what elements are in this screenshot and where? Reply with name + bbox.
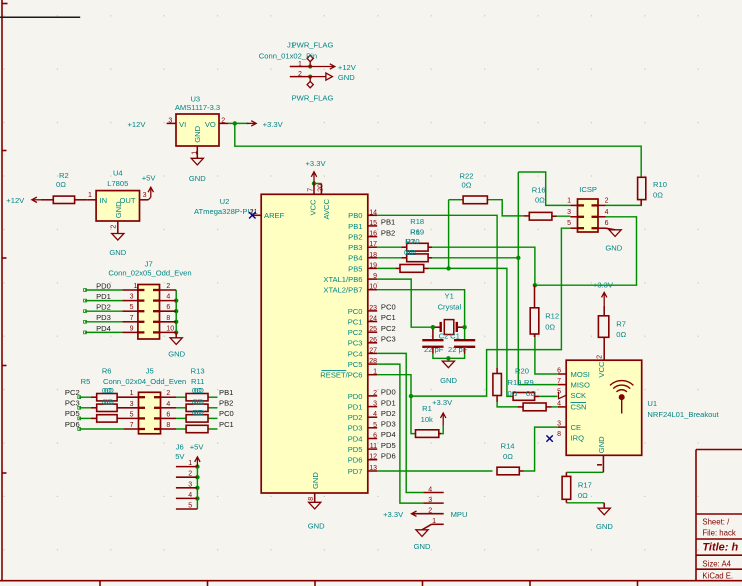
svg-text:VCC: VCC [597,361,606,378]
svg-text:L7805: L7805 [107,179,128,188]
svg-text:1: 1 [88,192,92,199]
svg-text:NRF24L01_Breakout: NRF24L01_Breakout [647,410,719,419]
svg-text:4: 4 [166,294,170,301]
svg-text:PD5: PD5 [348,445,363,454]
svg-text:1: 1 [567,197,571,204]
svg-text:1: 1 [373,369,377,376]
svg-text:14: 14 [369,209,377,216]
svg-text:GND: GND [605,243,622,252]
svg-text:9: 9 [373,273,377,280]
svg-text:0Ω: 0Ω [535,196,545,205]
svg-text:PC2: PC2 [381,324,396,333]
svg-text:24: 24 [369,316,377,323]
svg-text:13: 13 [369,465,377,472]
svg-text:PD4: PD4 [381,430,396,439]
svg-text:6: 6 [166,304,170,311]
svg-text:3: 3 [428,497,432,504]
svg-text:21: 21 [250,209,258,216]
svg-text:10: 10 [369,284,377,291]
svg-text:PD7: PD7 [348,467,363,476]
svg-text:+3.3V: +3.3V [305,159,326,168]
svg-text:7: 7 [130,315,134,322]
svg-text:28: 28 [369,358,377,365]
svg-text:+3.3V: +3.3V [432,398,453,407]
svg-text:2: 2 [221,118,225,125]
svg-text:File: hack: File: hack [702,528,735,537]
svg-text:3: 3 [143,192,147,199]
svg-text:GND: GND [414,542,431,551]
svg-text:PD2: PD2 [381,409,396,418]
svg-text:U2: U2 [220,197,230,206]
svg-text:8: 8 [166,422,170,429]
svg-text:27: 27 [369,347,377,354]
svg-text:C1: C1 [450,332,460,341]
svg-text:GND: GND [440,376,457,385]
svg-text:22 pF: 22 pF [424,345,444,354]
svg-text:AMS1117-3.3: AMS1117-3.3 [175,103,220,112]
svg-text:J6: J6 [176,442,184,451]
svg-text:R1: R1 [422,404,432,413]
svg-text:R13: R13 [191,366,205,375]
svg-text:2: 2 [166,390,170,397]
svg-text:2: 2 [597,355,604,359]
svg-text:KiCad E.: KiCad E. [702,571,733,580]
svg-text:+3.3V: +3.3V [263,120,284,129]
svg-text:2: 2 [373,390,377,397]
svg-text:8: 8 [308,497,315,501]
svg-text:PD0: PD0 [96,281,111,290]
svg-text:Conn_02x05_Odd_Even: Conn_02x05_Odd_Even [108,269,191,278]
svg-text:PB2: PB2 [348,233,362,242]
svg-text:PC5: PC5 [348,360,363,369]
svg-text:PC3: PC3 [381,335,396,344]
svg-text:PD4: PD4 [348,434,363,443]
svg-text:PC0: PC0 [381,303,396,312]
svg-text:PC0: PC0 [348,307,363,316]
svg-text:26: 26 [369,337,377,344]
svg-text:2: 2 [298,71,302,78]
svg-text:VI: VI [179,120,186,129]
svg-text:4: 4 [428,486,432,493]
svg-text:C2: C2 [439,332,449,341]
svg-text:PB2: PB2 [219,399,233,408]
svg-text:PB2: PB2 [381,228,395,237]
svg-text:1: 1 [130,390,134,397]
svg-text:10k: 10k [421,415,433,424]
svg-text:U1: U1 [647,399,657,408]
svg-text:R10: R10 [653,180,667,189]
svg-text:PC1: PC1 [348,317,363,326]
svg-text:15: 15 [369,220,377,227]
svg-text:R22: R22 [460,171,474,180]
svg-text:7: 7 [557,378,561,385]
svg-text:8: 8 [557,431,561,438]
svg-text:PD5: PD5 [65,409,80,418]
svg-text:0Ω: 0Ω [653,190,663,199]
svg-text:GND: GND [311,472,320,489]
svg-text:Sheet: /: Sheet: / [702,518,730,527]
svg-text:+5V: +5V [190,442,205,451]
svg-text:+3.3V: +3.3V [383,510,404,519]
svg-text:PD6: PD6 [348,456,363,465]
svg-text:4: 4 [605,209,609,216]
svg-text:GND: GND [193,125,202,142]
svg-text:R16: R16 [532,186,546,195]
svg-text:6: 6 [605,220,609,227]
svg-text:16: 16 [369,231,377,238]
svg-text:PD6: PD6 [381,451,396,460]
svg-text:AREF: AREF [264,211,285,220]
svg-text:J5: J5 [146,366,154,375]
svg-text:ICSP: ICSP [579,185,597,194]
svg-text:PC2: PC2 [348,328,363,337]
svg-text:PB1: PB1 [381,218,395,227]
svg-text:PC0: PC0 [219,409,234,418]
svg-text:4: 4 [188,492,192,499]
svg-text:PB4: PB4 [348,254,362,263]
svg-text:0Ω: 0Ω [194,408,204,417]
svg-text:R6: R6 [410,227,420,236]
svg-text:19: 19 [369,262,377,269]
svg-text:R5: R5 [81,377,91,386]
svg-text:12: 12 [369,454,377,461]
svg-text:6: 6 [373,433,377,440]
svg-text:2: 2 [188,471,192,478]
svg-text:GND: GND [168,350,185,359]
svg-text:11: 11 [370,443,377,450]
svg-text:6: 6 [557,368,561,375]
svg-text:5: 5 [567,220,571,227]
svg-text:R9: R9 [524,378,534,387]
svg-text:PD3: PD3 [348,424,363,433]
svg-text:7: 7 [130,422,134,429]
svg-text:0Ω: 0Ω [616,330,626,339]
svg-text:PD2: PD2 [96,303,111,312]
svg-text:0Ω: 0Ω [462,181,472,190]
svg-text:4: 4 [166,401,170,408]
svg-text:CSN: CSN [571,403,587,412]
svg-text:5: 5 [130,411,134,418]
svg-text:R14: R14 [501,442,515,451]
svg-text:PD1: PD1 [381,398,396,407]
svg-text:MPU: MPU [451,510,468,519]
svg-text:GND: GND [109,248,126,257]
svg-text:J7: J7 [145,260,153,269]
svg-text:5: 5 [188,503,192,510]
svg-text:IRQ: IRQ [571,434,585,443]
svg-text:AVCC: AVCC [322,198,331,219]
svg-text:R19: R19 [508,378,522,387]
svg-text:PC1: PC1 [381,313,396,322]
svg-text:R7: R7 [405,237,415,246]
svg-text:U3: U3 [190,94,200,103]
svg-text:+12V: +12V [128,120,147,129]
svg-text:VCC: VCC [308,199,317,216]
svg-text:R17: R17 [578,480,592,489]
svg-text:GND: GND [338,73,355,82]
svg-text:0Ω: 0Ω [526,389,536,398]
svg-text:6: 6 [166,411,170,418]
svg-text:0Ω: 0Ω [104,386,114,395]
svg-text:PD1: PD1 [348,403,363,412]
svg-text:2: 2 [428,508,432,515]
svg-text:PB1: PB1 [219,388,233,397]
svg-text:PD5: PD5 [381,441,396,450]
svg-text:0Ω: 0Ω [578,491,588,500]
svg-text:CE: CE [571,423,582,432]
svg-text:5V: 5V [175,452,185,461]
svg-text:XTAL2/PB7: XTAL2/PB7 [323,286,362,295]
svg-text:2: 2 [110,225,117,229]
svg-text:3: 3 [130,294,134,301]
svg-text:OUT: OUT [119,196,135,205]
svg-text:GND: GND [596,522,613,531]
svg-text:20: 20 [318,184,325,192]
svg-text:GND: GND [308,521,325,530]
svg-text:3: 3 [567,209,571,216]
svg-text:PC3: PC3 [348,339,363,348]
svg-text:4: 4 [373,411,377,418]
svg-text:PD3: PD3 [381,420,396,429]
svg-text:PB1: PB1 [348,222,362,231]
svg-text:3: 3 [130,401,134,408]
svg-text:0Ω: 0Ω [545,323,555,332]
svg-text:Title: h: Title: h [702,542,738,554]
svg-text:PB3: PB3 [348,243,362,252]
svg-text:PD0: PD0 [348,392,363,401]
svg-text:0Ω: 0Ω [503,452,513,461]
svg-text:PD0: PD0 [381,388,396,397]
svg-text:22 pF: 22 pF [448,345,468,354]
svg-text:Crystal: Crystal [438,302,462,311]
svg-text:0Ω: 0Ω [56,180,66,189]
svg-text:R6: R6 [102,366,112,375]
svg-text:1: 1 [188,460,192,467]
svg-text:Conn_02x04_Odd_Even: Conn_02x04_Odd_Even [103,377,186,386]
svg-text:23: 23 [369,305,377,312]
svg-text:1: 1 [432,518,436,525]
svg-text:R2: R2 [59,171,69,180]
svg-text:R20: R20 [515,366,529,375]
svg-text:PD1: PD1 [96,292,111,301]
svg-text:1: 1 [192,151,199,155]
svg-text:R12: R12 [545,312,559,321]
svg-text:5: 5 [373,422,377,429]
svg-text:+12V: +12V [6,196,25,205]
svg-text:PD6: PD6 [65,420,80,429]
svg-text:3: 3 [557,421,561,428]
svg-text:Conn_01x02_Pin: Conn_01x02_Pin [259,51,317,60]
svg-text:R11: R11 [191,377,204,386]
svg-text:2: 2 [605,197,609,204]
svg-text:R7: R7 [616,319,626,328]
svg-text:PC1: PC1 [219,420,234,429]
svg-text:5: 5 [557,389,561,396]
svg-text:SCK: SCK [571,391,587,400]
svg-text:VO: VO [205,120,216,129]
svg-text:IN: IN [100,196,108,205]
svg-text:U4: U4 [113,169,123,178]
svg-text:XTAL1/PB6: XTAL1/PB6 [323,275,362,284]
svg-text:25: 25 [369,326,377,333]
svg-text:Y1: Y1 [445,291,454,300]
svg-text:8: 8 [166,315,170,322]
svg-text:GND: GND [597,436,606,453]
svg-text:0Ω: 0Ω [194,386,204,395]
svg-text:PWR_FLAG: PWR_FLAG [292,94,334,103]
svg-text:3: 3 [373,401,377,408]
svg-text:MISO: MISO [571,381,591,390]
svg-text:2: 2 [166,283,170,290]
svg-text:9: 9 [130,325,134,332]
svg-text:PWR_FLAG: PWR_FLAG [292,41,334,50]
svg-text:PB5: PB5 [348,264,362,273]
svg-text:7: 7 [308,188,315,192]
svg-text:PC3: PC3 [65,399,80,408]
svg-text:0Ω: 0Ω [104,398,114,407]
svg-text:+5V: +5V [142,174,157,183]
svg-text:0Ω: 0Ω [404,248,414,257]
svg-text:4: 4 [557,400,561,407]
svg-text:+3.3V: +3.3V [593,281,614,290]
svg-text:R18: R18 [410,217,424,226]
svg-text:GND: GND [189,174,206,183]
svg-text:0Ω: 0Ω [508,389,518,398]
svg-text:ATmega328P-PU: ATmega328P-PU [194,207,253,216]
svg-text:1: 1 [298,61,302,68]
svg-text:17: 17 [369,241,377,248]
svg-text:0Ω: 0Ω [194,398,204,407]
svg-text:5: 5 [130,304,134,311]
svg-text:PD4: PD4 [96,324,111,333]
svg-text:PD3: PD3 [96,313,111,322]
svg-text:PB0: PB0 [348,211,362,220]
svg-text:PD2: PD2 [348,413,363,422]
svg-text:MOSI: MOSI [571,370,590,379]
svg-text:RESET/PC6: RESET/PC6 [320,371,362,380]
svg-text:Size: A4: Size: A4 [702,560,731,569]
svg-text:3: 3 [168,118,172,125]
svg-text:3: 3 [188,481,192,488]
svg-text:10: 10 [166,325,174,332]
svg-text:PC2: PC2 [65,388,80,397]
svg-text:+12V: +12V [338,63,357,72]
svg-text:PC4: PC4 [348,349,363,358]
svg-text:1: 1 [134,283,138,290]
svg-text:18: 18 [369,252,377,259]
